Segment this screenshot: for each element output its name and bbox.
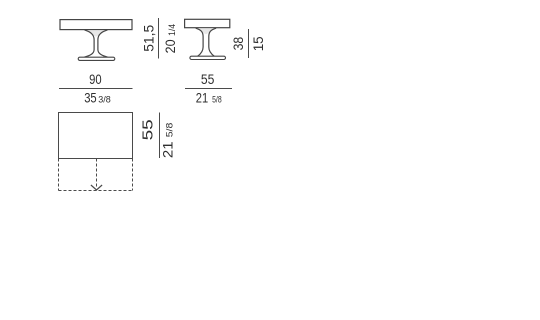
left table pedestal shading [86,30,107,36]
label 55 (cm) [201,72,215,87]
plan view dashed extension right edge [132,159,134,191]
label 20 1/4 (inch) [163,23,178,53]
label 55 depth (cm) [140,119,157,140]
label 51,5 (cm) [142,24,157,51]
plan view dashed extension bottom edge [59,190,133,192]
svg-text:3/8: 3/8 [98,95,111,106]
svg-text:90: 90 [89,72,102,87]
left table pedestal [84,30,107,57]
plan view dashed center line [96,159,98,189]
right table pedestal shading [197,28,215,34]
plan view arrow head [91,185,102,190]
right table base plate [190,56,226,59]
svg-text:51,5: 51,5 [142,24,157,51]
left table top [60,20,132,30]
svg-text:21 5/8: 21 5/8 [160,123,175,159]
dimension line: left table width [59,88,133,90]
dimension line: left table height [158,18,160,58]
dimension line: right table height [248,29,250,58]
left table base plate [78,57,115,60]
label 38 (cm) [231,37,246,51]
svg-text:20 1/4: 20 1/4 [163,23,178,53]
svg-text:55: 55 [201,72,215,87]
svg-text:21: 21 [196,91,208,106]
label 21 5/8 depth (inch) [160,123,175,159]
label 21 5/8 (inch) [196,91,222,106]
svg-text:35: 35 [84,91,97,106]
right table pedestal [196,28,216,56]
label 15 (inch) [251,36,266,51]
right table top [185,19,230,27]
label 35 3/8 (inch) [84,91,111,106]
svg-text:55: 55 [140,119,157,140]
svg-text:38: 38 [231,37,246,51]
dimension line: plan depth [159,113,161,158]
dimension line: right table width [185,88,232,90]
plan view dashed extension left edge [58,159,60,191]
label 90 (cm) [89,72,102,87]
plan view rectangle (solid part) [59,113,133,159]
svg-text:5/8: 5/8 [212,95,222,106]
svg-text:15: 15 [251,36,266,51]
